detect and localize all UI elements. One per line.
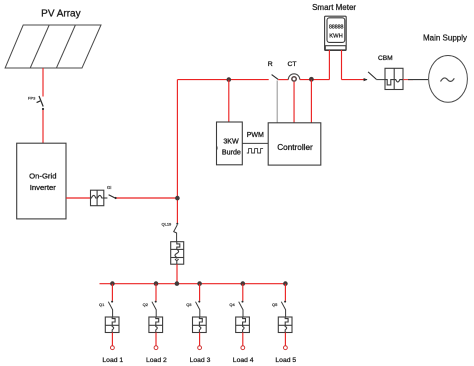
switch Q1 xyxy=(111,301,113,303)
meter wire left xyxy=(328,50,330,80)
smart meter body xyxy=(325,16,347,50)
breaker L2 xyxy=(149,317,163,333)
wire GI switch to junction A xyxy=(117,197,178,199)
svg-text:R: R xyxy=(268,61,273,68)
load branch 1 xyxy=(99,281,123,364)
wire tap to burde box xyxy=(228,80,230,122)
switch FP3 xyxy=(37,96,44,107)
wire mid breaker to load bus xyxy=(176,264,178,284)
svg-text:Load 3: Load 3 xyxy=(190,357,211,364)
svg-text:Q4: Q4 xyxy=(229,302,235,307)
svg-text:Q5: Q5 xyxy=(272,302,278,307)
svg-text:Inverter: Inverter xyxy=(30,183,57,192)
tap dot L2 xyxy=(154,281,159,286)
svg-text:I: I xyxy=(217,146,218,151)
controller drop wire from junction B xyxy=(310,80,312,123)
tap dot L5 xyxy=(283,281,288,286)
CT circle xyxy=(292,77,296,81)
breaker L5 xyxy=(278,317,292,333)
wire inverter to breaker GI xyxy=(66,197,91,199)
load branch 3 xyxy=(186,281,210,364)
wire CBM to main supply xyxy=(403,79,413,81)
tap dot L3 xyxy=(197,281,202,286)
svg-text:PV Array: PV Array xyxy=(41,8,80,19)
svg-text:Q2: Q2 xyxy=(143,302,149,307)
load bus xyxy=(100,283,288,285)
load branch 4 xyxy=(229,281,253,364)
svg-text:CBM: CBM xyxy=(378,55,393,62)
svg-text:3KW: 3KW xyxy=(223,138,239,146)
load branch 5 xyxy=(272,281,296,364)
wire PV to switch FP3 xyxy=(42,68,44,97)
terminal L5 xyxy=(284,346,288,350)
CBM breaker box xyxy=(385,68,403,89)
wire to terminal L4 xyxy=(242,333,244,346)
meter wire right xyxy=(341,50,343,80)
terminal L4 xyxy=(241,346,245,350)
tap dot L4 xyxy=(241,281,246,286)
wire L1 xyxy=(111,284,113,301)
wire to terminal L1 xyxy=(111,333,113,346)
wire L3 xyxy=(199,284,201,301)
3KW burden box xyxy=(217,122,243,165)
PWM link line xyxy=(242,142,268,144)
svg-text:Burde: Burde xyxy=(222,148,241,156)
svg-text:Load 2: Load 2 xyxy=(146,357,167,364)
wire to terminal L3 xyxy=(199,333,201,346)
terminal L3 xyxy=(198,346,202,350)
svg-text:Controller: Controller xyxy=(277,143,313,152)
top bus left segment xyxy=(177,79,268,81)
svg-text:On-Grid: On-Grid xyxy=(29,172,56,181)
wire CT to junction B xyxy=(300,79,330,81)
junction B dot xyxy=(309,77,314,82)
wire switch to inverter xyxy=(42,110,44,143)
svg-text:Smart Meter: Smart Meter xyxy=(312,3,356,12)
svg-text:Load 1: Load 1 xyxy=(102,357,123,364)
switch Q5 xyxy=(284,301,286,303)
terminal L2 xyxy=(154,346,158,350)
controller drop wire from R (gray) xyxy=(276,81,278,123)
wire to terminal L5 xyxy=(284,333,286,346)
on-grid inverter box xyxy=(17,143,66,219)
breaker L4 xyxy=(236,317,250,333)
bus meter-right to CBM switch xyxy=(342,79,364,81)
CT arc xyxy=(288,74,300,80)
breaker L1 xyxy=(105,317,119,333)
switch Q3 xyxy=(198,301,200,303)
mid breaker box xyxy=(171,242,184,265)
wire to terminal L2 xyxy=(155,333,157,346)
PWM waveform glyph xyxy=(247,149,263,153)
switch before CBM with arrowhead xyxy=(364,79,368,81)
svg-text:QL19: QL19 xyxy=(162,222,173,227)
svg-text:Q1: Q1 xyxy=(99,302,105,307)
svg-text:Main Supply: Main Supply xyxy=(423,33,467,42)
tap dot L1 xyxy=(110,281,115,286)
controller box xyxy=(268,123,321,165)
svg-text:GI: GI xyxy=(107,185,111,190)
svg-text:Load 5: Load 5 xyxy=(275,357,296,364)
junction A dot xyxy=(175,196,180,201)
breaker GI box xyxy=(91,190,104,206)
switch Q4 xyxy=(242,301,244,303)
main supply source xyxy=(429,56,468,103)
vertical feeder wire (top bus corner down to mid switch) xyxy=(176,80,178,223)
breaker L3 xyxy=(193,317,207,333)
svg-text:CT: CT xyxy=(288,61,297,68)
feed junction dot on load bus xyxy=(175,281,180,286)
burde tap junction dot xyxy=(227,77,232,82)
svg-text:PWM: PWM xyxy=(247,132,264,139)
wire R to CT xyxy=(278,79,288,81)
controller drop wire from CT xyxy=(293,82,295,123)
terminal L1 xyxy=(111,346,115,350)
PV array panel xyxy=(5,25,101,68)
svg-text:FP3: FP3 xyxy=(28,96,36,101)
svg-text:KWH: KWH xyxy=(329,34,343,40)
svg-text:Q3: Q3 xyxy=(186,302,192,307)
wire L4 xyxy=(242,284,244,301)
svg-text:Load 4: Load 4 xyxy=(233,357,254,364)
wire L2 xyxy=(155,284,157,301)
svg-text:88888: 88888 xyxy=(329,24,344,30)
load branch 2 xyxy=(143,281,167,364)
wire L5 xyxy=(284,284,286,301)
switch Q2 xyxy=(155,301,157,303)
